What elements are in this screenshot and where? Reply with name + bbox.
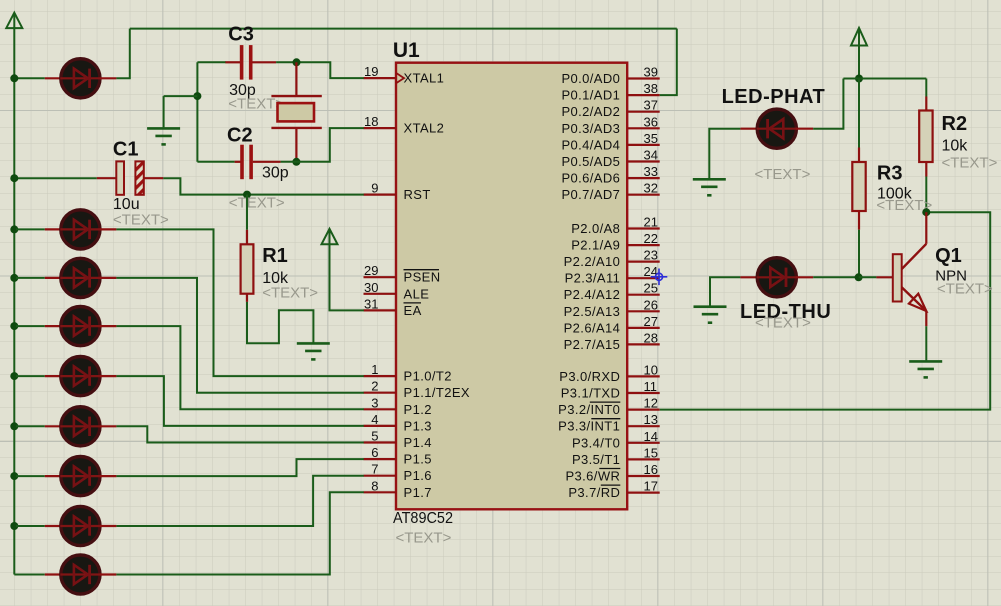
crystal X1 bottom plate [271, 127, 321, 129]
node - C3/C2/gnd junction [193, 92, 201, 100]
wire - emitter to ground [925, 326, 927, 360]
pin 10 P3.0/RXD (U1 right) [559, 362, 659, 384]
pin 27 P2.6/A14 (U1 right) [564, 314, 660, 336]
wire stub red R2 top [925, 97, 927, 111]
svg-text:R1: R1 [262, 245, 288, 267]
pin 26 P2.5/A13 (U1 right) [564, 297, 660, 319]
wire stub red left D4 [45, 325, 61, 327]
label R2 <TEXT> [942, 155, 998, 172]
label C3 [228, 23, 254, 45]
pin 32 P0.7/AD7 (U1 right) [561, 181, 659, 203]
wire stub red R3 bottom [858, 211, 860, 230]
wire stub red C2 right [253, 161, 281, 163]
wire - down to R2 [925, 79, 927, 97]
node - collector/R2/INT0 junction [922, 208, 930, 216]
wire - LED D4 to pin P1.2 [116, 326, 363, 409]
wire - crystal top lead [295, 62, 297, 96]
pin 18 XTAL2 (U1 left) [364, 114, 445, 136]
svg-text:31: 31 [364, 296, 378, 311]
wire - R3 bottom to base node [858, 230, 860, 278]
capacitor C3 plates [242, 45, 251, 80]
label AT89C52 [393, 510, 453, 527]
wire stub red right D6 [100, 425, 117, 427]
node - RST/R1 junction [243, 191, 251, 199]
pin 36 P0.3/AD3 (U1 right) [561, 114, 659, 136]
pin 39 P0.0/AD0 (U1 right) [561, 65, 659, 87]
wire stub red left D3 [45, 277, 61, 279]
svg-text:P3.7/RD: P3.7/RD [568, 485, 620, 500]
svg-text:29: 29 [364, 263, 378, 278]
ground (LED-THU) [694, 307, 727, 323]
label 30p (C2) [262, 165, 289, 182]
pin 17 P3.7/RD (U1 right) [568, 479, 659, 501]
node - rail/LED D6 junction [10, 422, 18, 430]
power symbol VCC (EA arrow) [322, 229, 338, 245]
svg-text:P0.4/AD4: P0.4/AD4 [561, 137, 620, 152]
svg-text:P1.6: P1.6 [404, 468, 432, 483]
wire stub red right D4 [100, 325, 117, 327]
svg-text:P3.4/T0: P3.4/T0 [572, 435, 620, 450]
pin 38 P0.1/AD1 (U1 right) [561, 81, 659, 103]
svg-text:P2.7/A15: P2.7/A15 [564, 337, 621, 352]
power symbol VCC (top-right arrow) [851, 28, 867, 46]
svg-text:P3.5/T1: P3.5/T1 [572, 452, 620, 467]
pin 33 P0.6/AD6 (U1 right) [561, 164, 659, 186]
wire - RST junction down to R1 [246, 195, 248, 230]
wire stub red R2 bottom [925, 162, 927, 177]
ground (LED-PHAT) [693, 179, 726, 195]
node - crystal bottom junction [292, 158, 300, 166]
wire - rail to LED D3 [16, 277, 45, 279]
wire stub red left D9 [45, 573, 61, 575]
svg-text:P0.5/AD5: P0.5/AD5 [561, 154, 620, 169]
wire - LED D2 to pin P1.0 [116, 229, 363, 376]
svg-text:8: 8 [371, 478, 378, 493]
label C2 <TEXT> [229, 195, 285, 212]
svg-text:13: 13 [644, 412, 658, 427]
svg-text:32: 32 [644, 181, 658, 196]
svg-text:16: 16 [644, 462, 658, 477]
svg-text:19: 19 [364, 64, 378, 79]
wire - EA arrow stem to EA pin [330, 244, 364, 310]
svg-text:<TEXT>: <TEXT> [942, 155, 998, 172]
svg-text:P2.6/A14: P2.6/A14 [564, 320, 621, 335]
svg-text:10u: 10u [113, 196, 140, 213]
svg-text:36: 36 [644, 114, 658, 129]
wire - LED-THU left to ground [710, 277, 740, 305]
svg-text:<TEXT>: <TEXT> [396, 530, 452, 547]
node - rail/C1 junction [10, 174, 18, 182]
wire stub red LED-PHAT left [740, 128, 757, 130]
wire - LED D9 to pin P1.7 [116, 492, 363, 574]
svg-text:P3.1/TXD: P3.1/TXD [561, 386, 621, 401]
wire stub red R1 bottom [246, 294, 248, 302]
wire - rail to LED D8 [16, 525, 45, 527]
LED D9 (column row 8) [60, 555, 100, 594]
svg-text:P3.2/INT0: P3.2/INT0 [558, 402, 620, 417]
wire - rail to LED D1 [16, 77, 45, 79]
svg-text:15: 15 [644, 445, 658, 460]
node - rail/LED D7 junction [10, 472, 18, 480]
pin 16 P3.6/WR (U1 right) [565, 462, 659, 484]
label R1 <TEXT> [262, 285, 318, 302]
pin 29 PSEN (U1 left) [364, 263, 441, 285]
svg-text:P1.1/T2EX: P1.1/T2EX [404, 385, 470, 400]
label LED-THU [740, 301, 831, 323]
svg-text:37: 37 [644, 98, 658, 113]
ground (crystal cluster) [147, 128, 180, 144]
LED D8 (column row 7) [60, 506, 100, 545]
pin 15 P3.5/T1 (U1 right) [572, 445, 660, 467]
wire stub red LED-THU left [740, 276, 757, 278]
svg-text:<TEXT>: <TEXT> [229, 195, 285, 212]
node - crystal top junction [293, 58, 301, 66]
svg-text:<TEXT>: <TEXT> [937, 281, 993, 298]
wire stub red left D1 [45, 77, 61, 79]
pin 6 P1.5 (U1 left) [364, 445, 432, 467]
node - VCC right junction [855, 75, 863, 83]
wire stub red R1 top [246, 230, 248, 245]
LED D3 (column row 2) [60, 258, 100, 297]
resistor R1 body [241, 244, 254, 293]
svg-text:U1: U1 [393, 39, 420, 62]
LED D2 (column row 1) [60, 210, 100, 249]
pin 31 EA (U1 left) [364, 296, 422, 318]
svg-text:P1.0/T2: P1.0/T2 [404, 369, 452, 384]
svg-text:30p: 30p [262, 165, 289, 182]
label R1 [262, 245, 288, 267]
svg-text:P2.5/A13: P2.5/A13 [564, 304, 621, 319]
wire stub red left D8 [45, 525, 61, 527]
svg-text:10: 10 [644, 362, 658, 377]
svg-text:14: 14 [644, 429, 658, 444]
svg-text:Q1: Q1 [935, 245, 962, 267]
svg-text:R2: R2 [942, 113, 968, 135]
wire - rail corner to LED D9 [14, 574, 45, 576]
label LED-PHAT <TEXT> [755, 166, 811, 183]
ground (R1 net) [297, 343, 330, 359]
pin 34 P0.5/AD5 (U1 right) [561, 148, 659, 170]
wire stub red right D8 [100, 525, 117, 527]
svg-text:P0.3/AD3: P0.3/AD3 [561, 121, 620, 136]
svg-text:PSEN: PSEN [404, 270, 441, 285]
label U1 <TEXT> [396, 530, 452, 547]
node - R3/LED-THU/base junction [855, 273, 863, 281]
wire stub red LED-PHAT right [796, 128, 813, 130]
svg-text:P1.3: P1.3 [404, 418, 432, 433]
pin 7 P1.6 (U1 left) [364, 462, 432, 484]
svg-text:P1.4: P1.4 [404, 435, 432, 450]
svg-text:AT89C52: AT89C52 [393, 510, 453, 527]
transistor Q1 emitter [902, 287, 927, 326]
wire - crystal bottom lead [295, 128, 297, 162]
svg-text:P0.0/AD0: P0.0/AD0 [561, 71, 620, 86]
LED D1 (top-left) [60, 59, 100, 98]
svg-text:<TEXT>: <TEXT> [228, 96, 284, 113]
crystal X1 top plate [271, 95, 321, 97]
node - rail/LED D3 junction [10, 274, 18, 282]
op-amp U1 body (AT89C52 chip body) [396, 63, 627, 510]
pin 24 P2.3/A11 (U1 right) [565, 264, 660, 286]
svg-text:P3.3/INT1: P3.3/INT1 [558, 419, 620, 434]
LED D6 (column row 5) [60, 407, 100, 446]
wire stub red C1 left [97, 177, 117, 179]
svg-text:P0.7/AD7: P0.7/AD7 [561, 187, 620, 202]
svg-text:18: 18 [364, 114, 378, 129]
svg-text:25: 25 [644, 281, 658, 296]
pin 25 P2.4/A12 (U1 right) [564, 281, 660, 303]
svg-text:P3.0/RXD: P3.0/RXD [559, 369, 620, 384]
svg-text:P2.0/A8: P2.0/A8 [571, 221, 620, 236]
svg-text:27: 27 [644, 314, 658, 329]
label Q1 <TEXT> [937, 281, 993, 298]
node - rail/LED D5 junction [10, 372, 18, 380]
svg-text:P1.5: P1.5 [404, 452, 432, 467]
transistor Q1 base bar [893, 254, 902, 301]
svg-text:21: 21 [644, 215, 658, 230]
wire stub red C2 left [235, 161, 241, 163]
LED-THU diode [757, 258, 797, 297]
LED-PHAT diode [757, 109, 797, 148]
pin 1 P1.0/T2 (U1 left) [364, 362, 452, 384]
svg-text:26: 26 [644, 297, 658, 312]
svg-text:P2.4/A12: P2.4/A12 [564, 287, 621, 302]
wire - P3.2/INT0 to transistor collector node [660, 212, 991, 409]
svg-text:P2.2/A10: P2.2/A10 [564, 254, 621, 269]
label C3 <TEXT> [228, 96, 284, 113]
power symbol VCC (top-left arrow) [6, 13, 22, 28]
wire - top rail down to pin 38 [660, 29, 677, 96]
svg-text:7: 7 [371, 462, 378, 477]
node - rail/LED D2 junction [10, 225, 18, 233]
ground (Q1 emitter) [909, 361, 942, 377]
wire - base node to Q1 base [859, 276, 877, 278]
wire - D1 to top rail corner [116, 29, 129, 79]
wire stub red C1 right [144, 177, 164, 179]
wire - R2 bottom to collector node [925, 177, 927, 213]
svg-text:RST: RST [404, 187, 431, 202]
svg-text:P1.7: P1.7 [404, 485, 432, 500]
label R3 <TEXT> [876, 197, 932, 214]
label 10u [113, 196, 140, 213]
pin 11 P3.1/TXD (U1 right) [561, 379, 660, 401]
wire stub red right D2 [100, 228, 117, 230]
label C2 [227, 125, 253, 147]
label 30p (C3) [229, 82, 256, 99]
wire - rail to LED D5 [16, 375, 45, 377]
svg-text:XTAL2: XTAL2 [404, 121, 445, 136]
wire - C3 right to XTAL1 [276, 62, 364, 78]
wire stub red right D1 [100, 77, 117, 79]
svg-text:<TEXT>: <TEXT> [262, 285, 318, 302]
wire - VCC horizontal to R2 [843, 78, 926, 80]
pin 8 P1.7 (U1 left) [364, 478, 432, 500]
svg-text:P3.6/WR: P3.6/WR [565, 469, 620, 484]
svg-text:30: 30 [364, 280, 378, 295]
LED D5 (column row 4) [60, 357, 100, 396]
pin 3 P1.2 (U1 left) [364, 395, 432, 417]
pin 35 P0.4/AD4 (U1 right) [561, 131, 659, 153]
wire - C2 left [197, 161, 234, 163]
svg-text:33: 33 [644, 164, 658, 179]
label R2 [942, 113, 968, 135]
wire stub red Q1 base [876, 276, 892, 278]
svg-text:22: 22 [644, 231, 658, 246]
origin marker (blue crosshair) [651, 269, 668, 286]
pin 12 P3.2/INT0 (U1 right) [558, 396, 660, 418]
wire - junction to ground [164, 95, 198, 97]
svg-text:XTAL1: XTAL1 [404, 71, 445, 86]
svg-text:C2: C2 [227, 125, 253, 147]
wire - C1 to RST [163, 178, 363, 194]
wire stub red left D5 [45, 375, 61, 377]
pin 30 ALE (U1 left) [364, 280, 430, 302]
LED D4 (column row 3) [60, 307, 100, 346]
svg-text:28: 28 [644, 330, 658, 345]
svg-text:LED-PHAT: LED-PHAT [722, 86, 826, 108]
wire stub red C3 right [252, 61, 276, 63]
label 10k (R2) [942, 138, 969, 155]
wire - top horizontal rail [130, 28, 677, 30]
wire - left vertical power rail [13, 27, 15, 575]
svg-text:EA: EA [404, 303, 422, 318]
wire - rail to LED D6 [16, 425, 45, 427]
node - rail/D1 junction [10, 74, 18, 82]
svg-text:ALE: ALE [404, 286, 430, 301]
wire - C2 right to XTAL2 [281, 128, 364, 162]
wire - rail to LED D7 [16, 475, 45, 477]
node - rail/LED D8 junction [10, 522, 18, 530]
svg-text:P2.1/A9: P2.1/A9 [571, 238, 620, 253]
resistor R3 body [852, 162, 865, 211]
LED D7 (column row 6) [60, 457, 100, 496]
svg-text:17: 17 [644, 479, 658, 494]
wire stub red R3 top [858, 148, 860, 163]
label C1 <TEXT> [113, 212, 169, 229]
node - rail/LED D4 junction [10, 322, 18, 330]
svg-text:11: 11 [644, 379, 658, 394]
svg-text:<TEXT>: <TEXT> [876, 197, 932, 214]
svg-text:P0.6/AD6: P0.6/AD6 [561, 171, 620, 186]
wire stub red right D9 [100, 573, 117, 575]
wire stub red C3 left [225, 61, 240, 63]
pin 28 P2.7/A15 (U1 right) [564, 330, 660, 352]
svg-text:23: 23 [644, 248, 658, 263]
wire - ground stem (crystal cluster) [163, 96, 165, 127]
svg-text:3: 3 [371, 395, 378, 410]
svg-text:<TEXT>: <TEXT> [755, 166, 811, 183]
svg-text:P1.2: P1.2 [404, 402, 432, 417]
svg-text:9: 9 [371, 181, 378, 196]
wire - R1 bottom route to ground [247, 302, 313, 343]
wire stub red left D6 [45, 425, 61, 427]
wire - LED-PHAT left to ground [709, 129, 740, 179]
svg-text:P0.2/AD2: P0.2/AD2 [561, 104, 620, 119]
svg-text:<TEXT>: <TEXT> [755, 315, 811, 332]
svg-text:P2.3/A11: P2.3/A11 [565, 271, 621, 286]
crystal X1 body [278, 103, 315, 121]
wire stub red right D7 [100, 475, 117, 477]
pin 19 XTAL1 (U1 left) [364, 64, 445, 86]
svg-text:<TEXT>: <TEXT> [113, 212, 169, 229]
label LED-THU <TEXT> [755, 315, 811, 332]
wire - right arrow stem [858, 46, 860, 79]
wire - LED D6 to pin P1.4 [116, 426, 363, 442]
wire - rail to LED D4 [16, 325, 45, 327]
label U1 [393, 39, 420, 62]
wire - LED D8 to pin P1.6 [116, 476, 363, 526]
wire - LED-THU right to base node [813, 276, 858, 278]
svg-text:35: 35 [644, 131, 658, 146]
pin 5 P1.4 (U1 left) [364, 429, 432, 451]
wire - C3 left vertical (to C2/gnd) [196, 62, 198, 162]
svg-text:6: 6 [371, 445, 378, 460]
label 10k (R1) [262, 270, 289, 287]
svg-text:38: 38 [644, 81, 658, 96]
wire stub red left D7 [45, 475, 61, 477]
svg-text:C1: C1 [113, 139, 139, 161]
svg-text:1: 1 [371, 362, 378, 377]
label NPN [935, 267, 967, 284]
label LED-PHAT [722, 86, 826, 108]
svg-text:R3: R3 [877, 163, 903, 185]
label 100k (R3) [877, 186, 913, 203]
svg-text:4: 4 [371, 412, 378, 427]
svg-text:34: 34 [644, 148, 658, 163]
svg-text:39: 39 [644, 65, 658, 80]
pin 4 P1.3 (U1 left) [364, 412, 432, 434]
label R3 [877, 163, 903, 185]
wire stub red LED-THU right [796, 276, 813, 278]
svg-text:12: 12 [644, 396, 658, 411]
wire - rail to C1 [16, 177, 97, 179]
wire stub red right D5 [100, 375, 117, 377]
wire stub red right D3 [100, 277, 117, 279]
svg-text:C3: C3 [228, 23, 254, 45]
pin 37 P0.2/AD2 (U1 right) [561, 98, 659, 120]
svg-text:5: 5 [371, 429, 378, 444]
svg-text:2: 2 [371, 379, 378, 394]
pin 21 P2.0/A8 (U1 right) [571, 215, 659, 237]
svg-text:10k: 10k [942, 138, 969, 155]
wire - LED-PHAT right up to VCC [813, 79, 843, 129]
pin 2 P1.1/T2EX (U1 left) [364, 379, 470, 401]
transistor Q1 collector [902, 212, 927, 269]
pin 22 P2.1/A9 (U1 right) [571, 231, 659, 253]
label Q1 [935, 245, 962, 267]
wire - LED D7 to pin P1.5 [116, 459, 363, 476]
pin 23 P2.2/A10 (U1 right) [564, 248, 660, 270]
capacitor C1 left plate [116, 161, 124, 194]
pin 13 P3.3/INT1 (U1 right) [558, 412, 660, 434]
wire - LED D5 to pin P1.3 [116, 376, 363, 426]
wire stub red left D2 [45, 228, 61, 230]
wire - rail to LED D2 [16, 228, 45, 230]
wire - C3 left [197, 61, 226, 63]
wire - VCC down to R3 [858, 79, 860, 148]
pin 14 P3.4/T0 (U1 right) [572, 429, 660, 451]
resistor R2 body [919, 111, 932, 163]
wire - LED D3 to pin P1.1 [116, 278, 363, 393]
pin 9 RST (U1 left) [364, 181, 431, 203]
label C1 [113, 139, 139, 161]
capacitor C2 plates [242, 145, 251, 180]
capacitor C1 right plate (hatched) [135, 161, 143, 194]
svg-text:P0.1/AD1: P0.1/AD1 [561, 88, 620, 103]
